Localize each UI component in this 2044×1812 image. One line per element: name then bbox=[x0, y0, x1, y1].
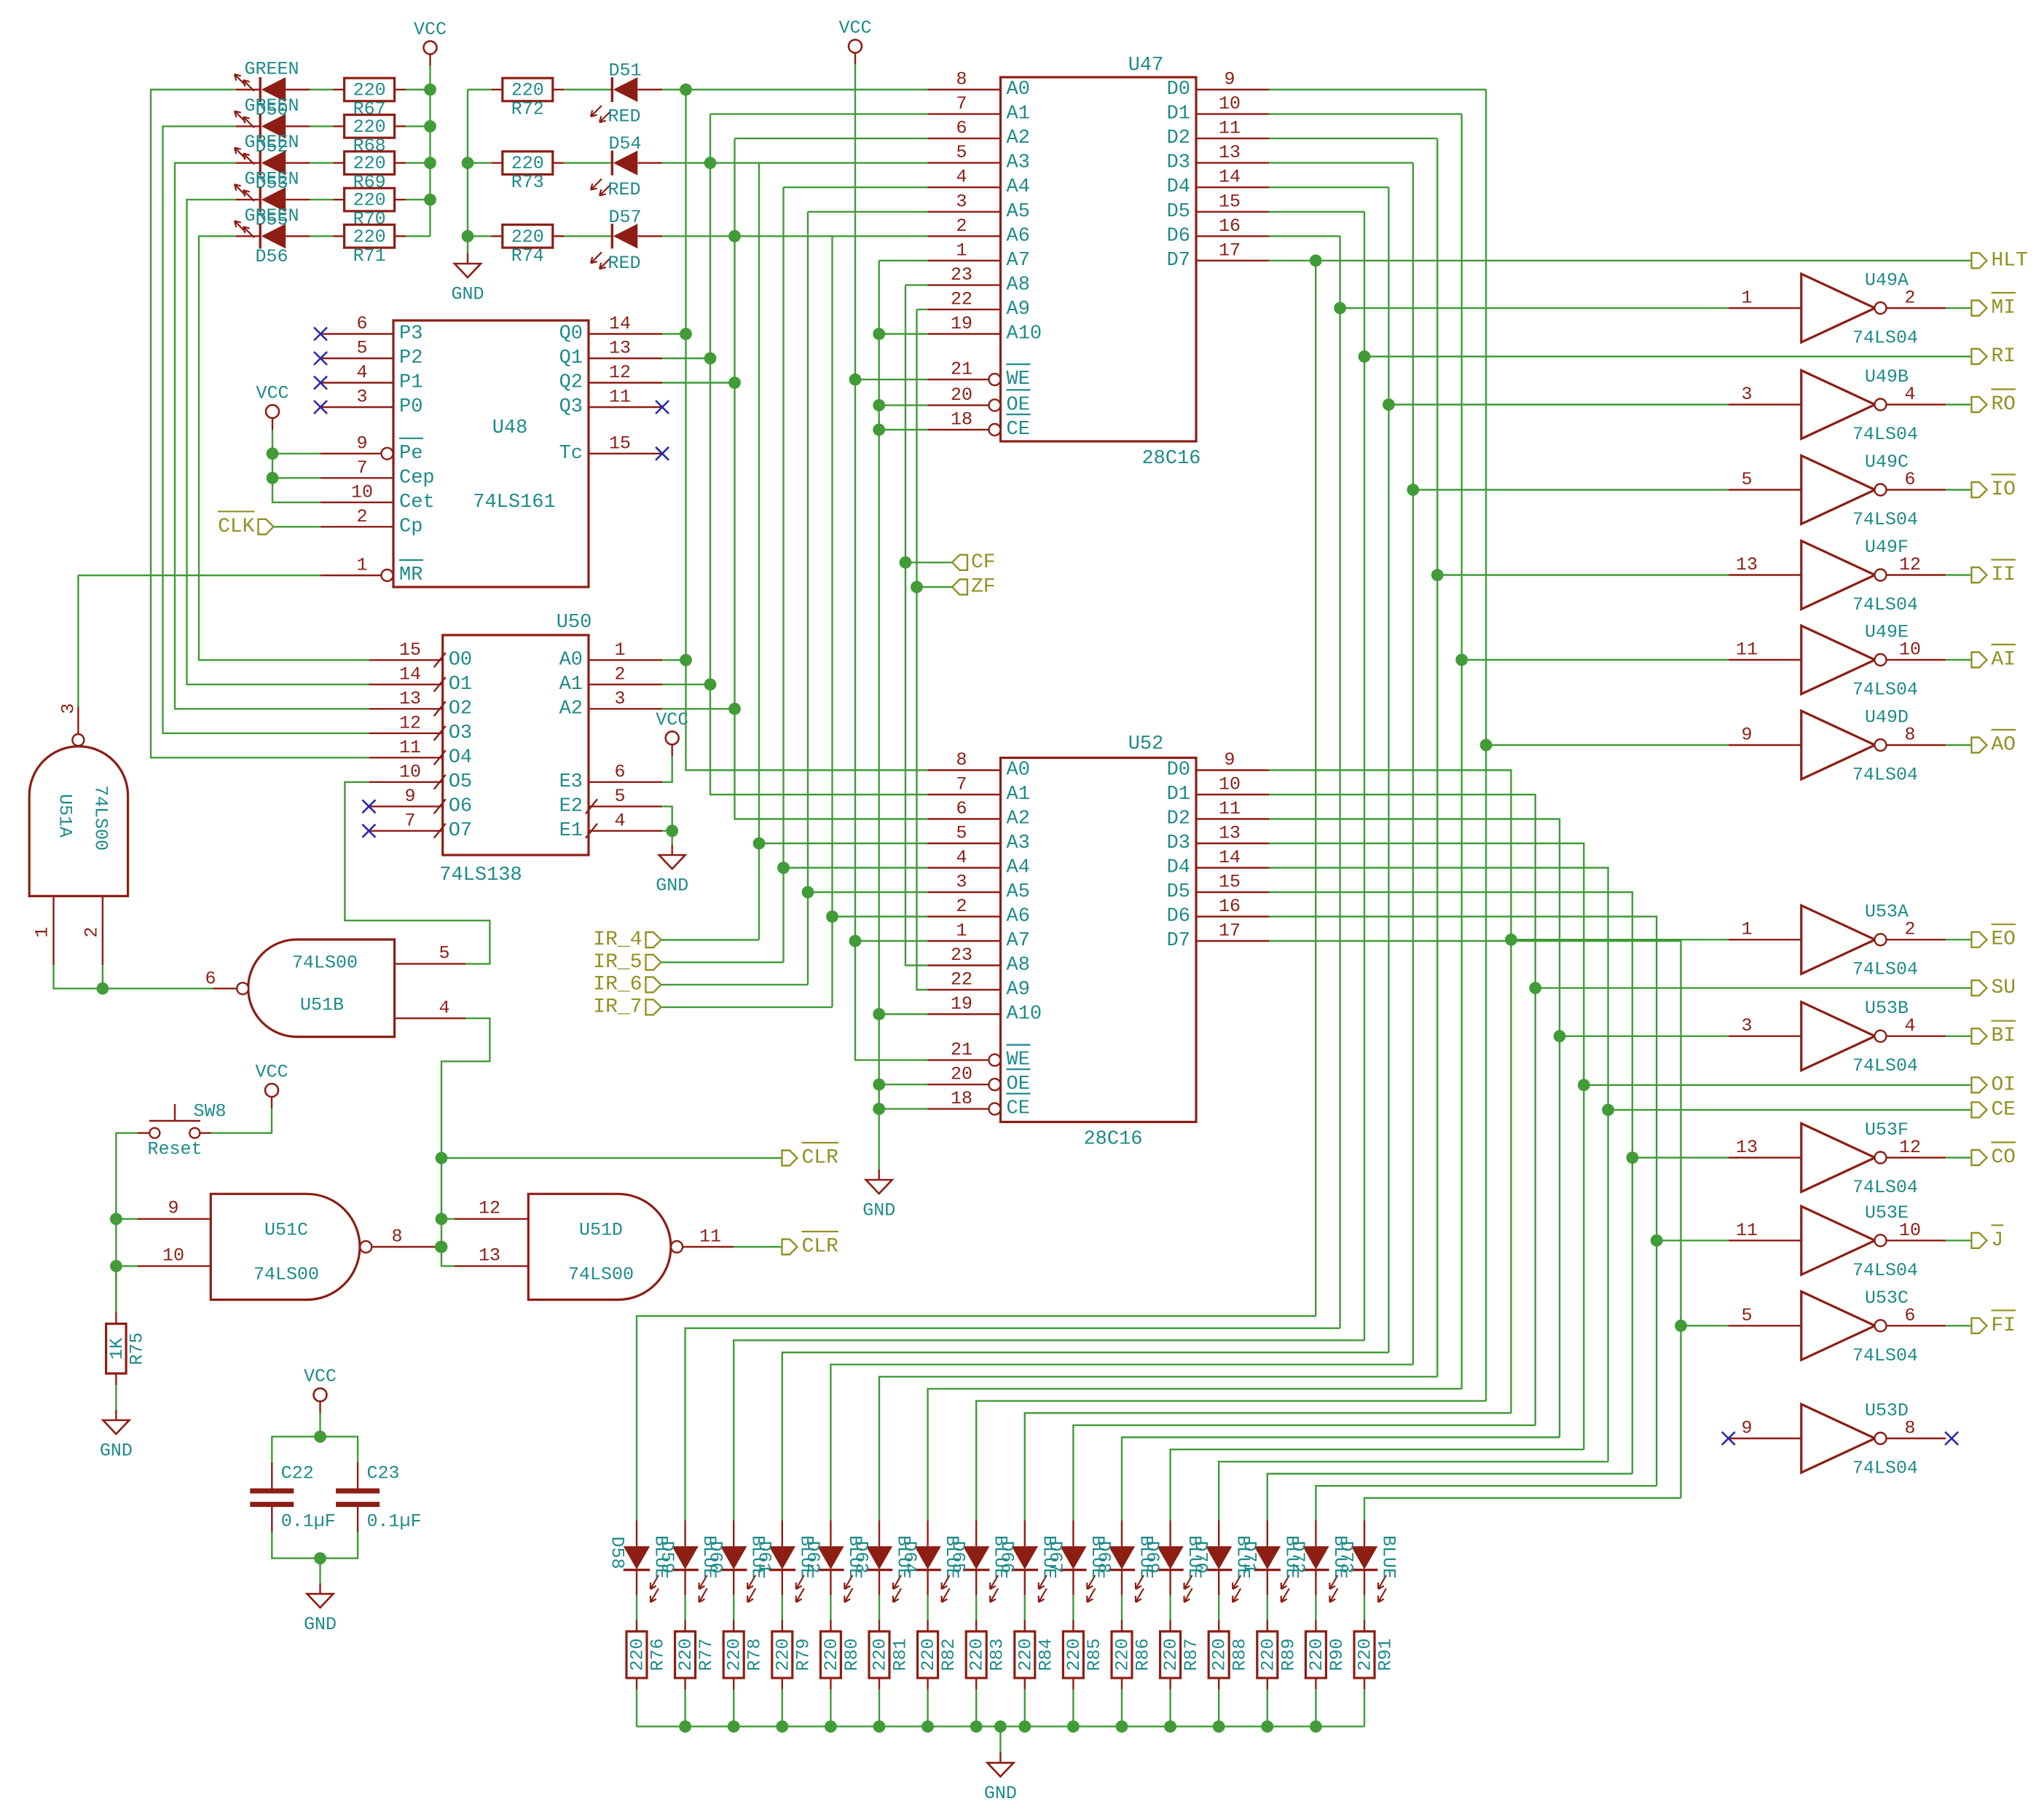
wire staircase row 16 bbox=[1364, 1498, 1681, 1521]
svg-text:15: 15 bbox=[1219, 191, 1241, 212]
resistor R80 220 bbox=[820, 1595, 862, 1727]
wire U52 A4 branch bbox=[784, 867, 928, 868]
wire control vertical 6 bbox=[1436, 138, 1438, 1376]
wire U47 D0 to bus bbox=[1269, 89, 1486, 90]
svg-text:10: 10 bbox=[162, 1245, 184, 1267]
svg-text:P0: P0 bbox=[399, 396, 422, 418]
resistor R84 220 bbox=[1015, 1595, 1057, 1727]
no-connect U48 P0 bbox=[314, 401, 327, 414]
svg-text:U51B: U51B bbox=[300, 995, 344, 1016]
svg-text:D2: D2 bbox=[1167, 127, 1190, 149]
svg-text:CLK: CLK bbox=[218, 516, 255, 538]
svg-text:RI: RI bbox=[1992, 345, 2016, 368]
wire U52 CE branch bbox=[879, 1108, 928, 1109]
svg-text:28C16: 28C16 bbox=[1083, 1129, 1142, 1151]
junction bbox=[728, 703, 741, 715]
svg-text:D2: D2 bbox=[1167, 808, 1190, 830]
svg-text:R77: R77 bbox=[696, 1638, 717, 1671]
power VCC SW8 bbox=[255, 1062, 288, 1109]
no-connect U48 Q3 bbox=[656, 401, 669, 414]
wire J output bbox=[1946, 1240, 1971, 1241]
label IR_5 bbox=[646, 955, 661, 970]
svg-text:14: 14 bbox=[1219, 847, 1241, 868]
svg-text:A4: A4 bbox=[1007, 857, 1030, 879]
junction bbox=[680, 654, 692, 666]
svg-text:21: 21 bbox=[951, 359, 972, 380]
wire LED D56 anode to U50 O0 bbox=[199, 236, 369, 660]
svg-text:8: 8 bbox=[391, 1226, 402, 1248]
resistor R76 220 bbox=[626, 1595, 669, 1727]
wire staircase row 12 bbox=[1171, 1449, 1584, 1520]
wire SU bbox=[1536, 987, 1972, 988]
svg-text:A8: A8 bbox=[1007, 955, 1030, 977]
svg-text:74LS04: 74LS04 bbox=[1852, 1345, 1918, 1366]
junction bbox=[728, 377, 741, 389]
inverter U53F 74LS04 bbox=[1729, 1119, 1946, 1198]
svg-text:CE: CE bbox=[1007, 419, 1030, 441]
svg-text:C22: C22 bbox=[281, 1463, 314, 1484]
svg-text:1K: 1K bbox=[106, 1338, 127, 1360]
svg-text:FI: FI bbox=[1992, 1315, 2016, 1337]
svg-text:GREEN: GREEN bbox=[244, 205, 299, 227]
no-connect U48 Tc bbox=[656, 447, 669, 460]
junction bbox=[704, 157, 717, 169]
svg-text:5: 5 bbox=[1741, 1305, 1752, 1326]
svg-text:0.1µF: 0.1µF bbox=[281, 1511, 336, 1532]
LED D54 RED bbox=[591, 133, 662, 200]
wire U52 A7 branch bbox=[855, 940, 928, 942]
svg-text:R85: R85 bbox=[1084, 1638, 1105, 1671]
svg-text:D71: D71 bbox=[1238, 1540, 1259, 1573]
svg-text:R80: R80 bbox=[841, 1638, 862, 1671]
svg-text:GREEN: GREEN bbox=[244, 95, 299, 117]
svg-text:9: 9 bbox=[1224, 749, 1235, 771]
junction bbox=[753, 838, 766, 850]
svg-text:IR_7: IR_7 bbox=[593, 996, 642, 1018]
svg-text:1: 1 bbox=[956, 240, 967, 261]
svg-text:8: 8 bbox=[956, 69, 967, 90]
svg-text:A9: A9 bbox=[1007, 299, 1030, 320]
IC U48 74LS161 bbox=[321, 313, 662, 587]
svg-text:220: 220 bbox=[1160, 1638, 1182, 1671]
svg-text:CE: CE bbox=[1007, 1098, 1030, 1120]
svg-text:13: 13 bbox=[1736, 554, 1758, 575]
svg-text:D1: D1 bbox=[1167, 784, 1190, 805]
label HLT bbox=[1972, 249, 2028, 272]
wire U47 WE row bbox=[855, 379, 928, 380]
LED D50 GREEN bbox=[235, 59, 310, 121]
svg-text:A3: A3 bbox=[1007, 832, 1030, 854]
wire U51C pin9 branch bbox=[116, 1218, 137, 1219]
wire staircase row 15 bbox=[1316, 1486, 1656, 1520]
junction bbox=[873, 1079, 885, 1091]
inverter U49F 74LS04 bbox=[1729, 537, 1946, 615]
wire U52 D0 to bus bbox=[1269, 771, 1511, 1414]
svg-text:6: 6 bbox=[356, 313, 367, 334]
svg-text:220: 220 bbox=[724, 1638, 745, 1671]
svg-text:O0: O0 bbox=[449, 649, 472, 671]
junction bbox=[873, 424, 885, 436]
junction bbox=[314, 1430, 326, 1443]
wire RO input bbox=[1388, 403, 1728, 405]
svg-text:74LS04: 74LS04 bbox=[1852, 1260, 1918, 1281]
inverter U53B 74LS04 bbox=[1729, 998, 1946, 1076]
IC U50 74LS138 bbox=[369, 612, 662, 886]
svg-text:D7: D7 bbox=[1167, 250, 1190, 272]
junction bbox=[802, 886, 814, 899]
svg-text:HLT: HLT bbox=[1992, 249, 2028, 272]
svg-text:U53B: U53B bbox=[1865, 998, 1909, 1019]
no-connect U48 P3 bbox=[314, 328, 327, 341]
svg-text:74LS161: 74LS161 bbox=[473, 492, 555, 513]
svg-text:10: 10 bbox=[399, 761, 421, 782]
label ZF bbox=[952, 580, 967, 595]
svg-text:20: 20 bbox=[951, 385, 972, 406]
junction bbox=[873, 1720, 886, 1733]
wire IR_7 vertical to U52 A6 bbox=[831, 236, 833, 1007]
LED D53 GREEN bbox=[235, 132, 310, 194]
svg-text:U48: U48 bbox=[492, 417, 528, 439]
svg-text:D58: D58 bbox=[607, 1536, 628, 1569]
svg-text:D54: D54 bbox=[608, 133, 641, 154]
svg-text:13: 13 bbox=[1219, 142, 1241, 163]
svg-text:RED: RED bbox=[608, 179, 640, 200]
junction bbox=[424, 194, 436, 206]
svg-text:Q1: Q1 bbox=[559, 347, 583, 369]
svg-text:9: 9 bbox=[356, 433, 367, 454]
svg-text:U49B: U49B bbox=[1865, 366, 1909, 387]
wire Q0 vertical bus bbox=[686, 90, 928, 771]
svg-text:A4: A4 bbox=[1007, 176, 1030, 198]
junction bbox=[435, 1241, 447, 1253]
junction bbox=[994, 1720, 1007, 1733]
svg-text:17: 17 bbox=[1219, 240, 1241, 261]
resistor R72 220 bbox=[468, 78, 612, 119]
wire staircase row 5 bbox=[830, 1365, 1412, 1521]
junction bbox=[1480, 739, 1493, 752]
wire U47 D3 to bus bbox=[1269, 162, 1413, 163]
svg-text:P3: P3 bbox=[399, 323, 422, 345]
inverter U53E 74LS04 bbox=[1729, 1202, 1946, 1281]
svg-text:220: 220 bbox=[1112, 1638, 1133, 1671]
svg-text:RO: RO bbox=[1992, 393, 2016, 416]
svg-text:3: 3 bbox=[956, 872, 967, 893]
wire LED D50 anode to U50 O4 bbox=[151, 90, 369, 757]
svg-text:17: 17 bbox=[1219, 921, 1241, 942]
wire control vertical 3 bbox=[1364, 212, 1365, 1341]
svg-text:16: 16 bbox=[1219, 896, 1241, 917]
svg-text:13: 13 bbox=[399, 688, 421, 709]
label EO bbox=[1972, 924, 2016, 951]
svg-text:MI: MI bbox=[1992, 297, 2016, 320]
wire OI bbox=[1584, 1084, 1971, 1086]
wire U52 D7 to bus bbox=[1269, 941, 1681, 1498]
LED D57 RED bbox=[591, 207, 662, 274]
svg-text:13: 13 bbox=[1219, 823, 1241, 844]
LED D56 GREEN bbox=[235, 205, 310, 267]
junction bbox=[1164, 1720, 1176, 1733]
svg-text:Q2: Q2 bbox=[559, 372, 583, 394]
svg-text:Cet: Cet bbox=[399, 492, 435, 513]
wire FI output bbox=[1946, 1325, 1971, 1326]
svg-text:9: 9 bbox=[168, 1198, 178, 1219]
junction bbox=[1651, 1234, 1663, 1247]
power GND for R72-R74 bbox=[451, 253, 484, 305]
wire SW8 to U51C inputs bbox=[116, 1133, 138, 1312]
svg-text:VCC: VCC bbox=[256, 383, 288, 404]
LED D60 BLUE bbox=[705, 1520, 769, 1602]
svg-text:11: 11 bbox=[1219, 798, 1241, 819]
no-connect U48 P1 bbox=[314, 377, 327, 390]
svg-text:Tc: Tc bbox=[559, 443, 583, 465]
wire IR_7 bbox=[661, 1007, 833, 1008]
svg-text:BLUE: BLUE bbox=[1378, 1535, 1399, 1579]
svg-text:U53C: U53C bbox=[1865, 1288, 1909, 1309]
wire IR_6 vertical to U52 A5 bbox=[807, 212, 809, 985]
svg-text:IO: IO bbox=[1992, 478, 2016, 501]
wire U50 A1 out bbox=[662, 684, 710, 685]
wire staircase row 10 bbox=[1073, 1425, 1535, 1520]
svg-text:8: 8 bbox=[956, 749, 967, 771]
svg-text:Cp: Cp bbox=[399, 516, 422, 537]
junction bbox=[826, 910, 838, 923]
svg-text:J: J bbox=[1992, 1229, 2004, 1252]
wire staircase row 4 bbox=[782, 1352, 1389, 1520]
wire U51A inputs to U51B output bbox=[54, 965, 213, 988]
wire GND rail to R72-R74 bbox=[467, 90, 468, 253]
svg-text:16: 16 bbox=[1219, 216, 1241, 237]
svg-text:220: 220 bbox=[627, 1638, 648, 1671]
svg-text:AO: AO bbox=[1992, 734, 2016, 757]
wire EO output bbox=[1946, 939, 1971, 940]
wire staircase row 2 bbox=[685, 1328, 1340, 1521]
wire U47 D7 to HLT bbox=[1269, 260, 1972, 261]
wire U47 D4 to bus bbox=[1269, 186, 1388, 188]
svg-text:A2: A2 bbox=[1007, 127, 1030, 149]
wire U52 A3 branch bbox=[759, 843, 928, 844]
wire Q1 vertical bus bbox=[710, 113, 928, 114]
svg-text:U53A: U53A bbox=[1865, 902, 1909, 923]
wire control vertical 7 bbox=[1461, 114, 1462, 1389]
wire EO input bbox=[1511, 939, 1728, 940]
svg-text:D70: D70 bbox=[1190, 1540, 1211, 1573]
resistor R83 220 bbox=[966, 1595, 1008, 1727]
wire U47 A4 row bbox=[784, 186, 928, 188]
power GND mid bbox=[862, 1170, 895, 1221]
svg-text:WE: WE bbox=[1007, 369, 1030, 390]
wire AI output bbox=[1946, 659, 1971, 661]
svg-text:D57: D57 bbox=[608, 207, 641, 228]
wire BI input bbox=[1560, 1035, 1729, 1036]
svg-text:C23: C23 bbox=[367, 1463, 400, 1484]
svg-text:9: 9 bbox=[1224, 69, 1235, 90]
svg-text:2: 2 bbox=[614, 663, 625, 685]
wire CO output bbox=[1946, 1157, 1971, 1158]
svg-text:R74: R74 bbox=[511, 245, 544, 267]
wire staircase row 6 bbox=[879, 1376, 1437, 1520]
svg-text:220: 220 bbox=[675, 1638, 696, 1671]
wire U51A out to MR bbox=[78, 575, 321, 576]
svg-text:5: 5 bbox=[614, 786, 625, 807]
svg-text:R72: R72 bbox=[511, 99, 544, 120]
junction bbox=[921, 1720, 934, 1733]
svg-text:74LS04: 74LS04 bbox=[1852, 328, 1918, 349]
svg-text:13: 13 bbox=[479, 1245, 500, 1267]
wire U51D pin12 branch bbox=[441, 1218, 455, 1219]
svg-text:3: 3 bbox=[1741, 1015, 1752, 1036]
resistor R67 220 bbox=[310, 78, 431, 119]
svg-text:R81: R81 bbox=[890, 1638, 911, 1671]
power VCC U50 E3 bbox=[656, 709, 688, 756]
wire U52 OE branch bbox=[879, 1084, 928, 1085]
svg-text:R78: R78 bbox=[744, 1638, 766, 1671]
wire AO output bbox=[1946, 744, 1971, 746]
wire U47 D6 to bus bbox=[1269, 235, 1340, 237]
svg-text:220: 220 bbox=[511, 153, 544, 174]
svg-text:U52: U52 bbox=[1128, 733, 1164, 755]
svg-text:22: 22 bbox=[951, 288, 972, 310]
label RO bbox=[1972, 390, 2016, 417]
wire U51C pin10 branch bbox=[116, 1265, 137, 1267]
svg-text:14: 14 bbox=[1219, 167, 1241, 188]
svg-text:R75: R75 bbox=[127, 1332, 148, 1365]
svg-text:2: 2 bbox=[956, 216, 967, 237]
svg-text:R88: R88 bbox=[1230, 1638, 1251, 1671]
wire Pe branch bbox=[272, 453, 321, 454]
wire caps top rail bbox=[319, 1413, 321, 1437]
svg-text:20: 20 bbox=[951, 1064, 972, 1085]
svg-text:A6: A6 bbox=[1007, 906, 1030, 928]
svg-text:10: 10 bbox=[351, 481, 373, 503]
svg-text:D4: D4 bbox=[1167, 176, 1190, 198]
svg-text:O4: O4 bbox=[449, 747, 472, 768]
resistor R88 220 bbox=[1208, 1595, 1251, 1727]
svg-text:A10: A10 bbox=[1007, 323, 1042, 345]
svg-text:11: 11 bbox=[1736, 1220, 1758, 1241]
inverter U49A 74LS04 bbox=[1729, 270, 1946, 349]
label CLR upper bbox=[782, 1143, 839, 1170]
junction bbox=[873, 1008, 885, 1020]
svg-text:GREEN: GREEN bbox=[244, 132, 299, 153]
svg-text:1: 1 bbox=[1741, 288, 1752, 309]
wire CO input bbox=[1632, 1157, 1729, 1158]
wire U51A output to MR bbox=[77, 575, 79, 707]
junction bbox=[424, 84, 436, 96]
svg-text:220: 220 bbox=[1306, 1638, 1327, 1671]
wire AI input bbox=[1462, 659, 1729, 661]
svg-text:GND: GND bbox=[304, 1614, 337, 1635]
wire U51D out to CLR bbox=[734, 1246, 782, 1248]
svg-text:GREEN: GREEN bbox=[244, 59, 299, 80]
svg-text:18: 18 bbox=[951, 1088, 972, 1109]
svg-text:R79: R79 bbox=[793, 1638, 814, 1671]
svg-text:D0: D0 bbox=[1167, 79, 1190, 101]
resistor R82 220 bbox=[918, 1595, 960, 1727]
svg-text:7: 7 bbox=[404, 810, 415, 831]
switch SW8 Reset bbox=[138, 1101, 227, 1160]
wire VCC rail to R67-R71 bbox=[429, 66, 431, 236]
svg-text:CF: CF bbox=[971, 551, 996, 574]
svg-text:23: 23 bbox=[951, 945, 972, 966]
label FI bbox=[1972, 1310, 2016, 1337]
svg-text:220: 220 bbox=[772, 1638, 793, 1671]
svg-text:1: 1 bbox=[956, 921, 967, 942]
svg-text:A1: A1 bbox=[1007, 103, 1030, 125]
label IR_6 bbox=[646, 977, 661, 993]
junction bbox=[462, 157, 474, 169]
wire CF branch bbox=[905, 562, 952, 563]
svg-text:CE: CE bbox=[1992, 1098, 2016, 1121]
svg-text:O1: O1 bbox=[449, 674, 472, 696]
label MI bbox=[1972, 293, 2016, 320]
wire ZF branch bbox=[917, 586, 953, 588]
svg-text:12: 12 bbox=[479, 1198, 500, 1219]
svg-text:220: 220 bbox=[353, 117, 386, 138]
LED D64 BLUE bbox=[899, 1520, 962, 1602]
wire J input bbox=[1656, 1240, 1729, 1241]
wire U47 OE row bbox=[879, 404, 928, 406]
svg-text:9: 9 bbox=[1741, 725, 1752, 746]
svg-text:D3: D3 bbox=[1167, 152, 1190, 174]
junction bbox=[436, 1152, 448, 1165]
svg-text:R87: R87 bbox=[1181, 1638, 1202, 1671]
svg-text:OI: OI bbox=[1992, 1074, 2016, 1096]
resistor R86 220 bbox=[1112, 1595, 1154, 1727]
svg-text:D56: D56 bbox=[255, 246, 288, 267]
svg-text:D65: D65 bbox=[948, 1540, 969, 1573]
wire U47 D5 to bus bbox=[1269, 211, 1364, 213]
wire LED D52 anode to U50 O3 bbox=[163, 126, 369, 733]
svg-text:Reset: Reset bbox=[147, 1139, 202, 1160]
label AI bbox=[1972, 645, 2016, 671]
junction bbox=[1602, 1104, 1614, 1116]
capacitor C23 0.1uF bbox=[336, 1462, 421, 1532]
svg-text:D67: D67 bbox=[1045, 1540, 1066, 1573]
svg-text:P1: P1 bbox=[399, 372, 422, 394]
label IO bbox=[1972, 475, 2016, 502]
svg-text:5: 5 bbox=[1741, 469, 1752, 490]
power VCC top-left bbox=[414, 19, 447, 66]
wire IR_4 bbox=[661, 939, 760, 940]
wire U50 A0 out bbox=[662, 659, 685, 661]
wire Q2 stub bbox=[662, 382, 734, 383]
svg-text:74LS04: 74LS04 bbox=[1852, 424, 1918, 445]
svg-text:U53E: U53E bbox=[1865, 1202, 1909, 1224]
wire control vertical 1 bbox=[1315, 261, 1316, 1316]
svg-text:O7: O7 bbox=[449, 820, 472, 842]
resistor R71 220 bbox=[310, 225, 431, 267]
resistor R79 220 bbox=[772, 1595, 814, 1727]
wire staircase row 3 bbox=[734, 1340, 1364, 1520]
svg-text:D60: D60 bbox=[705, 1540, 726, 1573]
svg-text:1: 1 bbox=[614, 639, 625, 661]
power GND U50 enables bbox=[656, 845, 688, 897]
svg-text:U49D: U49D bbox=[1865, 707, 1909, 728]
wire U52 D2 to bus bbox=[1269, 819, 1560, 1438]
svg-text:D4: D4 bbox=[1167, 857, 1190, 879]
svg-text:4: 4 bbox=[956, 847, 967, 868]
wire U52 A5 branch bbox=[808, 891, 928, 893]
svg-text:Q3: Q3 bbox=[559, 396, 583, 418]
resistor R78 220 bbox=[723, 1595, 765, 1727]
svg-text:O3: O3 bbox=[449, 722, 472, 744]
LED D62 BLUE bbox=[802, 1520, 865, 1602]
svg-text:A6: A6 bbox=[1007, 225, 1030, 247]
wire IR_5 vertical to U52 A4 bbox=[782, 187, 784, 962]
junction bbox=[873, 399, 885, 411]
wire U52 D4 to bus bbox=[1269, 868, 1608, 1462]
junction bbox=[1261, 1720, 1273, 1733]
